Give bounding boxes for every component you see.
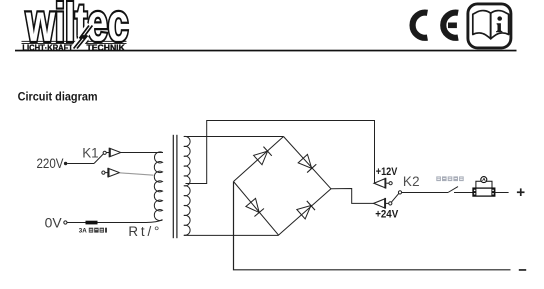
logo text LICHT-KRAFT (22, 42, 73, 52)
manual book icon frame (468, 4, 511, 48)
wire secondary tap to +12V rail (186, 121, 375, 184)
wire secondary bottom to bridge bottom (184, 234, 279, 236)
output plus sign (517, 188, 525, 196)
bridge edge top-right (284, 137, 332, 189)
logo lightning bolt (74, 26, 93, 49)
wire secondary top to bridge top (184, 136, 284, 138)
bridge edge bottom-right (279, 189, 332, 235)
label +24V (375, 209, 399, 221)
transformer core (173, 135, 177, 238)
wire contact to primary tap (grey) (120, 173, 154, 175)
wire 0V to fuse (67, 222, 86, 224)
manual book icon open book (473, 11, 509, 39)
contact arrow lower (to transformer tap) (102, 168, 120, 178)
svg-text:K1: K1 (82, 145, 98, 160)
output minus sign (519, 269, 526, 271)
wire contact to primary top (121, 152, 163, 154)
label 220V (37, 156, 64, 171)
fuse 3A body (86, 221, 98, 225)
svg-text:220V: 220V (37, 156, 64, 171)
svg-text:+12V: +12V (376, 166, 398, 178)
switch K2 blade (391, 191, 401, 202)
svg-text:Circuit diagram: Circuit diagram (18, 91, 98, 104)
header horizontal rule (15, 50, 517, 52)
contact arrow upper (to transformer top) (106, 148, 121, 158)
contact +24V (374, 198, 392, 209)
wire 220V to K1 (67, 163, 94, 165)
label 0V (45, 216, 62, 231)
label overcurrent protector (Chinese, tiny) (436, 176, 463, 181)
bridge edge left-bottom (234, 182, 279, 236)
heading Circuit diagram (18, 91, 98, 104)
terminal 0V (64, 221, 67, 224)
wire fuse to primary bottom (98, 220, 163, 223)
wire bridge plus to 24V contact (331, 189, 374, 204)
wiltec logo wordmark (25, 0, 128, 53)
label K1 (82, 145, 98, 160)
CE mark letter C (413, 13, 428, 38)
logo double rule lines (22, 41, 127, 44)
wire protector to plus output (495, 192, 509, 194)
logo text TECHNIK (87, 42, 126, 52)
transformer primary winding (154, 152, 162, 221)
wire bridge minus down and right to output (234, 182, 511, 270)
protector switch blade (448, 187, 473, 193)
diode D1 (left-top edge) (254, 147, 272, 165)
svg-text:Rt/°: Rt/° (128, 224, 159, 239)
label K2 (403, 174, 420, 189)
transformer secondary winding (184, 136, 190, 235)
label Rt/deg (128, 224, 159, 239)
label +12V (376, 166, 398, 178)
bridge edge left-top (234, 137, 284, 182)
svg-text:3A: 3A (79, 228, 87, 235)
svg-text:+24V: +24V (375, 209, 399, 221)
svg-text:0V: 0V (45, 216, 62, 231)
diode D4 (bottom-right edge) (297, 201, 315, 219)
diode D2 (top-right edge) (298, 154, 316, 172)
terminal 220V (64, 162, 67, 165)
svg-text:K2: K2 (403, 174, 420, 189)
wire K2 to protector switch (402, 192, 448, 194)
CE mark letter E (443, 13, 458, 38)
switch K1 blade (94, 151, 106, 163)
diode D3 (left-bottom edge) (246, 198, 264, 216)
contact +12V (374, 178, 392, 189)
label 3A fuse (79, 228, 107, 235)
overcurrent protector body (473, 177, 495, 197)
